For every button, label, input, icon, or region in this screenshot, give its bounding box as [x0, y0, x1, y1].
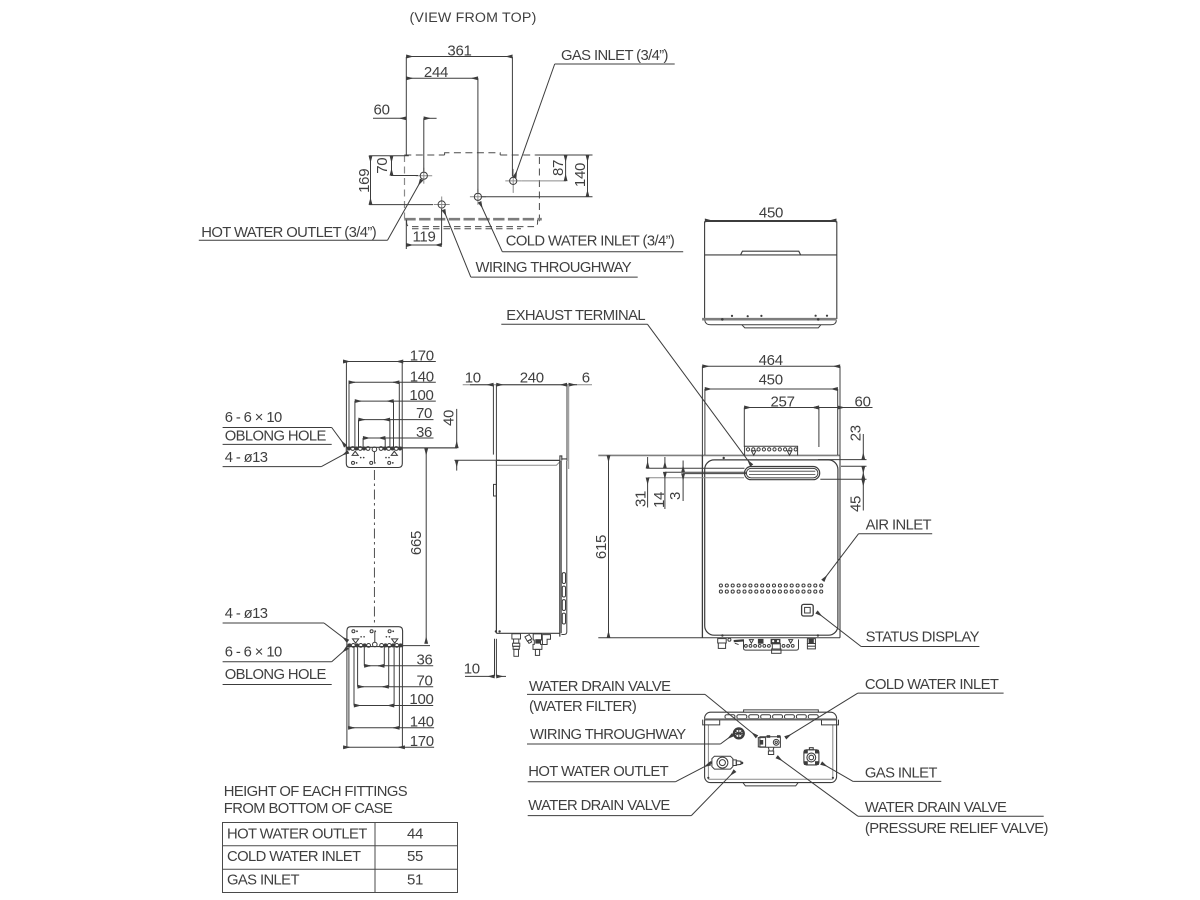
wire ext gas vertical — [511, 57, 513, 177]
svg-text:140: 140 — [572, 163, 589, 187]
wire ext wiring level — [369, 204, 433, 206]
label GAS INLET bottom — [821, 763, 941, 781]
svg-text:OBLONG HOLE: OBLONG HOLE — [225, 428, 327, 444]
svg-text:100: 100 — [409, 387, 433, 404]
svg-text:FROM BOTTOM OF CASE: FROM BOTTOM OF CASE — [224, 801, 393, 817]
wire ext hot water vertical — [423, 118, 425, 171]
dim 45 — [862, 479, 864, 497]
svg-text:6 - 6 × 10: 6 - 6 × 10 — [225, 645, 282, 661]
svg-text:GAS INLET: GAS INLET — [865, 765, 937, 781]
label 4-ø13 top — [223, 450, 349, 467]
part bottom fitting left pipe — [718, 639, 727, 643]
part bottom bracket plate — [744, 639, 799, 650]
svg-text:HOT WATER OUTLET: HOT WATER OUTLET — [227, 826, 367, 842]
svg-text:EXHAUST TERMINAL: EXHAUST TERMINAL — [506, 308, 645, 324]
part bottom fitting right pipe — [807, 639, 815, 644]
svg-text:GAS INLET (3/4”): GAS INLET (3/4”) — [561, 48, 669, 64]
wire bracket plate outline — [347, 627, 403, 647]
part hot water outlet assembly — [710, 756, 744, 769]
svg-text:WATER DRAIN VALVE: WATER DRAIN VALVE — [529, 679, 671, 695]
wire thin dashed step — [412, 228, 521, 230]
svg-text:257: 257 — [771, 393, 795, 410]
wire ext verticals left — [346, 647, 348, 748]
wire outline — [705, 712, 837, 782]
wire bracket hook side — [494, 484, 497, 496]
svg-text:23: 23 — [847, 425, 864, 441]
dim 36 bottom — [364, 665, 433, 667]
svg-text:COLD WATER INLET: COLD WATER INLET — [227, 849, 361, 865]
wire ext 31 top — [647, 467, 745, 469]
svg-text:10: 10 — [464, 661, 480, 678]
wire inner gray lines — [708, 725, 832, 779]
svg-text:HOT WATER OUTLET: HOT WATER OUTLET — [528, 764, 668, 780]
wire front cover rounded — [705, 460, 838, 635]
node center mark — [372, 447, 377, 452]
dim 450 front — [704, 389, 706, 455]
wire ext 31 bottom gray — [648, 477, 744, 479]
dim 36 top — [363, 437, 433, 439]
label AIR INLET — [823, 518, 932, 581]
svg-text:36: 36 — [416, 651, 432, 668]
svg-text:3: 3 — [667, 492, 684, 500]
wire thin dashed bottom rounded — [407, 220, 538, 227]
svg-text:119: 119 — [412, 229, 435, 246]
svg-text:51: 51 — [407, 872, 423, 889]
wire wall line top — [492, 385, 494, 455]
label WATER DRAIN VALVE (PRESSURE RELIEF VALVE) — [777, 757, 1049, 837]
svg-text:60: 60 — [855, 393, 871, 410]
node hole row bottom — [348, 643, 403, 647]
node corner dots — [495, 630, 501, 632]
dim 244 — [406, 77, 478, 79]
dim 31 — [647, 457, 649, 468]
svg-text:6: 6 — [582, 369, 590, 386]
label WIRING THROUGHWAY — [444, 210, 638, 277]
label WIRING THROUGHWAY bottom — [527, 727, 733, 744]
wire mid line — [705, 254, 837, 256]
wire bottom tab — [743, 783, 798, 786]
node screw dots — [721, 315, 828, 321]
node gas inlet hole — [505, 169, 521, 193]
part gas inlet assembly — [804, 748, 819, 765]
svg-text:45: 45 — [848, 496, 865, 512]
wire ext top edge right — [536, 154, 593, 156]
dim 23 — [818, 459, 867, 461]
wire flange tab left — [703, 720, 720, 725]
dim 361 — [406, 56, 512, 58]
wire ext left vertical — [405, 57, 407, 155]
label WATER DRAIN VALVE bottom-left — [528, 771, 735, 816]
svg-text:4 - ø13: 4 - ø13 — [225, 450, 268, 466]
svg-text:6 - 6 × 10: 6 - 6 × 10 — [225, 410, 282, 426]
wire bottom rounded — [705, 320, 837, 324]
part top mounting bracket behind — [745, 446, 798, 455]
svg-text:40: 40 — [441, 410, 458, 426]
wire exhaust lip — [560, 456, 567, 461]
wire top slant gray — [497, 461, 561, 465]
wire flange tab right — [822, 720, 839, 725]
wire side louvres — [562, 573, 565, 584]
dim 3 — [682, 461, 684, 473]
node hanger triangles — [353, 639, 398, 643]
wire table frame — [223, 823, 458, 893]
svg-text:60: 60 — [374, 102, 390, 119]
wire top edge dashed — [404, 153, 539, 221]
part drain valve side — [533, 634, 542, 650]
dim 87 — [565, 155, 567, 181]
svg-text:361: 361 — [447, 42, 471, 59]
wire louvre slots — [725, 715, 818, 719]
wire case bottom edge — [496, 632, 559, 634]
dim 10 bottom side — [465, 675, 495, 677]
svg-text:COLD WATER INLET (3/4”): COLD WATER INLET (3/4”) — [506, 234, 675, 250]
part relief valve center — [772, 644, 780, 649]
dim line 10-240-6 — [463, 384, 592, 386]
dim 70 top — [359, 419, 434, 421]
svg-text:87: 87 — [550, 160, 567, 176]
node oblong holes top — [352, 630, 391, 633]
svg-text:HOT WATER OUTLET (3/4”): HOT WATER OUTLET (3/4”) — [201, 225, 376, 241]
part exhaust slot — [745, 467, 820, 480]
svg-text:WATER DRAIN VALVE: WATER DRAIN VALVE — [528, 798, 670, 814]
wire front ext line top — [566, 385, 568, 461]
node cold water inlet hole — [470, 189, 486, 205]
svg-text:HEIGHT OF EACH FITTINGS: HEIGHT OF EACH FITTINGS — [224, 784, 408, 800]
label 4-ø13 bottom — [223, 606, 348, 641]
wire back plate line top — [495, 385, 497, 462]
wire left edge dashed — [404, 155, 406, 219]
wire cover front ext gray — [568, 385, 570, 469]
wire ext gas level right — [521, 180, 566, 182]
svg-text:170: 170 — [410, 733, 434, 750]
svg-text:70: 70 — [416, 405, 432, 422]
dim 60 front — [819, 407, 873, 409]
svg-text:(VIEW FROM TOP): (VIEW FROM TOP) — [409, 10, 536, 26]
svg-text:(WATER FILTER): (WATER FILTER) — [529, 699, 637, 715]
label HOT WATER OUTLET (3/4") — [199, 180, 422, 241]
label HOT WATER OUTLET bottom — [528, 764, 711, 782]
wire cover front line — [561, 461, 566, 635]
node oblong holes bottom — [352, 461, 391, 464]
svg-text:450: 450 — [759, 372, 783, 389]
dim 450 top — [705, 220, 836, 222]
label 6-6x10 OBLONG HOLE bottom — [223, 645, 348, 685]
part gas elbow side — [542, 635, 550, 645]
svg-text:70: 70 — [374, 158, 391, 174]
dim 140 bottom — [348, 727, 434, 729]
wire case back edge — [495, 461, 497, 634]
dim 60 — [373, 117, 406, 119]
svg-text:4 - ø13: 4 - ø13 — [225, 606, 268, 622]
wire bottom tab — [742, 325, 821, 328]
svg-text:GAS INLET: GAS INLET — [227, 873, 299, 889]
label GAS INLET (3/4") — [515, 48, 675, 177]
svg-text:55: 55 — [407, 848, 423, 865]
node wiring throughway hole — [434, 197, 450, 213]
svg-text:10: 10 — [465, 369, 481, 386]
label STATUS DISPLAY — [817, 612, 980, 647]
wire ext cold water vertical — [477, 78, 479, 192]
svg-text:240: 240 — [520, 369, 544, 386]
label COLD WATER INLET bottom — [785, 677, 1003, 738]
svg-text:70: 70 — [416, 672, 432, 689]
dim 665 — [403, 448, 458, 646]
wire center dash-dot line — [373, 470, 375, 624]
wire ext verticals left — [345, 362, 347, 448]
dim 70 bottom — [358, 686, 434, 688]
wire pipe lines left — [665, 471, 746, 473]
dim 615 — [608, 455, 610, 637]
wire back plate bottom + ext 615 — [598, 637, 840, 639]
svg-text:36: 36 — [416, 424, 432, 441]
dim 100 bottom — [354, 705, 433, 707]
svg-text:140: 140 — [410, 368, 434, 385]
part bottom fitting small — [728, 638, 731, 641]
dim 169 — [370, 156, 372, 205]
svg-text:450: 450 — [759, 204, 783, 221]
svg-text:140: 140 — [410, 713, 434, 730]
dim 100 top — [355, 400, 436, 402]
wire thick gray bottom — [702, 318, 837, 321]
dim 170 bottom — [343, 746, 434, 748]
node small dots — [360, 636, 390, 638]
svg-text:100: 100 — [409, 691, 433, 708]
node bottom dots — [707, 777, 834, 779]
svg-text:170: 170 — [410, 347, 434, 364]
dim 14 — [664, 457, 666, 468]
part wiring grommet — [734, 729, 744, 739]
part status display — [802, 604, 814, 616]
node small dots — [360, 457, 390, 459]
part drain barb fitting — [512, 634, 521, 657]
part cold water valve assembly — [758, 735, 780, 754]
part air inlet row2 — [719, 590, 822, 593]
node hanger triangles — [352, 451, 397, 455]
wire case top edge — [496, 459, 560, 461]
wire back plate sides — [701, 456, 703, 638]
wire top exhaust tab — [744, 710, 819, 712]
svg-text:464: 464 — [759, 352, 783, 369]
part tilted coupler — [525, 635, 532, 642]
svg-text:AIR INLET: AIR INLET — [866, 518, 932, 534]
svg-text:WIRING THROUGHWAY: WIRING THROUGHWAY — [530, 727, 686, 743]
dim 119 — [441, 209, 443, 245]
wire flange band — [705, 718, 837, 720]
node cover dots — [721, 457, 819, 637]
node hole row top — [347, 447, 402, 451]
label EXHAUST TERMINAL — [501, 308, 751, 466]
wire ext verticals right — [401, 362, 403, 448]
wire case top outline — [705, 222, 837, 320]
wire ext verticals right — [401, 647, 403, 748]
node center mark — [373, 642, 378, 647]
dim 257 — [743, 408, 745, 448]
svg-text:14: 14 — [651, 492, 668, 508]
svg-text:665: 665 — [408, 531, 425, 555]
label WATER DRAIN VALVE (WATER FILTER) — [527, 679, 757, 737]
dim 40 side — [403, 447, 458, 449]
label 6-6x10 OBLONG HOLE top — [223, 410, 346, 446]
svg-text:615: 615 — [593, 535, 610, 559]
dim 140 top — [349, 381, 436, 383]
svg-text:COLD WATER INLET: COLD WATER INLET — [865, 677, 999, 693]
wire thick dashed bottom — [404, 218, 542, 221]
part air inlet row1 — [719, 584, 822, 587]
wire ext cold level right — [482, 196, 593, 198]
node hot water outlet hole — [416, 168, 432, 184]
svg-text:STATUS DISPLAY: STATUS DISPLAY — [866, 630, 980, 646]
label COLD WATER INLET (3/4") — [480, 202, 684, 252]
svg-text:31: 31 — [633, 491, 650, 507]
svg-text:WATER DRAIN VALVE: WATER DRAIN VALVE — [865, 800, 1007, 816]
svg-text:WIRING THROUGHWAY: WIRING THROUGHWAY — [476, 260, 632, 276]
wire back plate top gray — [598, 454, 840, 456]
svg-text:OBLONG HOLE: OBLONG HOLE — [225, 667, 327, 683]
svg-text:169: 169 — [356, 169, 373, 193]
wire bracket plate outline — [346, 447, 402, 467]
wire ext hot water level — [391, 175, 418, 177]
dim 170 top — [343, 361, 436, 363]
dim 464 — [701, 366, 703, 457]
svg-text:44: 44 — [407, 825, 423, 842]
dim 70 — [391, 156, 393, 176]
svg-text:244: 244 — [424, 64, 448, 81]
wire raised tab — [741, 251, 801, 255]
dim 140 — [587, 155, 589, 197]
wire wall stubs bottom — [494, 639, 496, 677]
wire ext top edge left — [369, 155, 409, 157]
wire case front edge — [559, 460, 561, 636]
svg-text:(PRESSURE RELIEF VALVE): (PRESSURE RELIEF VALVE) — [865, 821, 1049, 837]
